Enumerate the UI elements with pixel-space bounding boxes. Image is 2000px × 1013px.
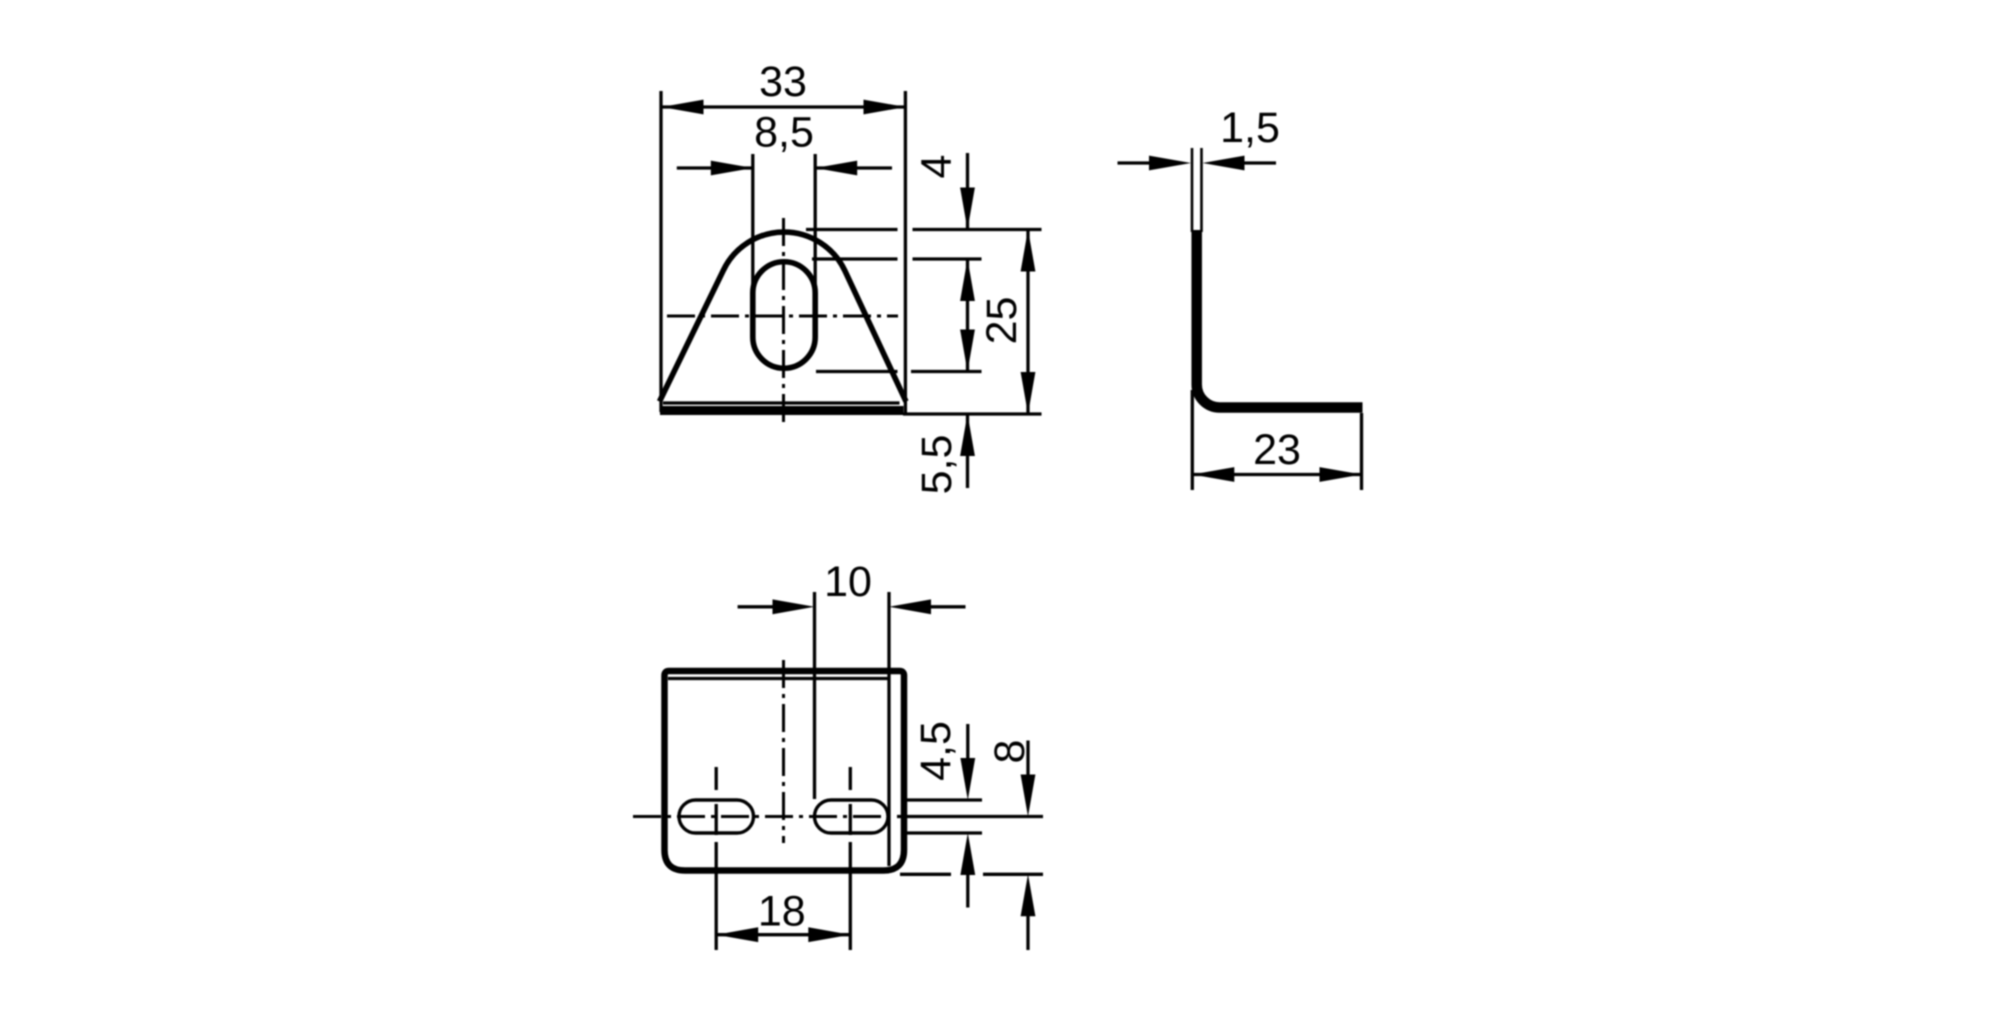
- svg-text:33: 33: [759, 58, 807, 106]
- svg-text:4,5: 4,5: [912, 721, 960, 781]
- svg-text:4: 4: [912, 155, 960, 179]
- svg-text:8,5: 8,5: [754, 109, 814, 157]
- svg-text:8: 8: [986, 740, 1034, 764]
- svg-text:25: 25: [978, 297, 1026, 345]
- svg-text:5,5: 5,5: [913, 435, 961, 495]
- svg-text:23: 23: [1253, 426, 1301, 474]
- svg-text:1,5: 1,5: [1220, 104, 1280, 152]
- svg-text:18: 18: [758, 888, 806, 936]
- svg-text:10: 10: [824, 558, 872, 606]
